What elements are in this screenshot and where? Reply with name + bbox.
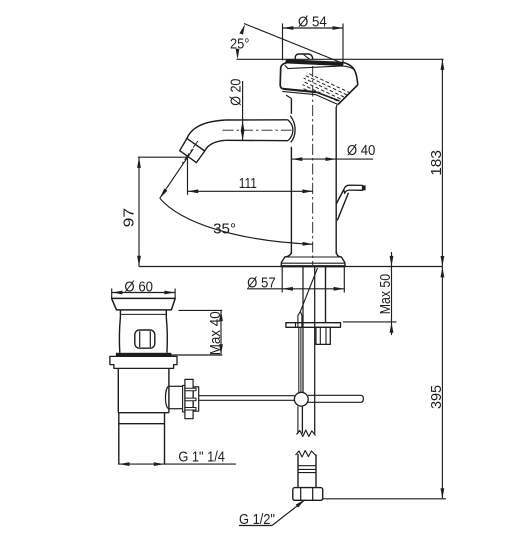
mounting nut [316, 327, 330, 344]
dimension Ø57 [247, 267, 344, 293]
base flange [281, 252, 345, 267]
dimension 111 [188, 157, 314, 195]
hex nut G1/2 [293, 488, 323, 501]
head knurl texture [284, 62, 362, 123]
drain neck [119, 310, 120, 353]
svg-text:Max 40: Max 40 [208, 311, 224, 355]
leader G 1/2" [239, 498, 306, 525]
dimension Max 40 [168, 310, 223, 355]
pipe break top [297, 430, 316, 437]
dimension Ø20 [241, 81, 245, 141]
centerline aerator [182, 141, 198, 163]
svg-text:G 1" 1/4: G 1" 1/4 [178, 450, 225, 466]
svg-text:395: 395 [429, 385, 445, 409]
head right closing edge [338, 85, 358, 105]
svg-text:183: 183 [429, 150, 445, 176]
svg-text:35°: 35° [213, 222, 236, 238]
horizontal pop-up rod left [199, 395, 295, 397]
svg-text:Ø 20: Ø 20 [229, 79, 245, 106]
dimension Ø60 [112, 289, 175, 299]
dimension 395 [323, 267, 447, 499]
riser pipe [302, 267, 304, 392]
head tilted right silhouette [342, 62, 358, 85]
supply pipe lower [297, 454, 299, 488]
mounting stud [325, 267, 327, 323]
svg-text:97: 97 [122, 208, 138, 228]
horizontal pop-up rod right [308, 395, 363, 402]
centerline spout [223, 129, 292, 131]
dimension G 1" 1/4 [119, 462, 236, 466]
spout joint collar [288, 120, 293, 141]
faucet head cap bar [288, 61, 342, 64]
drain top disc [112, 298, 176, 310]
svg-text:111: 111 [239, 176, 257, 192]
svg-text:Ø 54: Ø 54 [298, 14, 327, 30]
dimension Ø54 [283, 24, 344, 64]
o-ring [116, 353, 171, 357]
centerline faucet body [312, 66, 314, 265]
head skirt bottom [283, 89, 317, 92]
spout elbow [187, 120, 226, 138]
spout aerator [180, 138, 205, 162]
head tilted bottom rims [317, 92, 340, 101]
dimension Ø40 [292, 157, 373, 161]
angle 35 annotation [158, 149, 313, 246]
head cap underside [285, 65, 354, 70]
countertop reference line [139, 266, 443, 268]
dimension 183 [441, 59, 445, 266]
mounting bracket [286, 323, 341, 328]
dimension 97 [137, 157, 186, 266]
pull rod diagonal [300, 268, 317, 311]
knurled rod nut [183, 385, 185, 412]
drain upper cylinder [117, 368, 119, 412]
head left face [280, 63, 287, 89]
faucet body [290, 99, 292, 114]
rod boss [165, 386, 168, 408]
svg-text:G 1/2": G 1/2" [239, 512, 275, 528]
drain overflow hole [135, 330, 155, 348]
pull rod blade [298, 311, 302, 328]
drain pull rod ball joint [294, 392, 308, 406]
pipe break bottom [296, 451, 316, 458]
svg-text:Max 50: Max 50 [378, 274, 394, 314]
angle 25 annotation [236, 24, 444, 64]
dimension Max 50 [343, 252, 397, 335]
head knob [295, 54, 313, 60]
svg-text:25°: 25° [230, 36, 250, 52]
svg-text:Ø 60: Ø 60 [124, 279, 153, 295]
drain lower tube [118, 413, 120, 465]
drain flange [110, 356, 177, 368]
svg-text:Ø 57: Ø 57 [247, 276, 276, 292]
head neck cone [286, 95, 292, 99]
svg-text:Ø 40: Ø 40 [347, 143, 376, 159]
side lever arm [336, 190, 344, 205]
spout tube [226, 119, 288, 121]
